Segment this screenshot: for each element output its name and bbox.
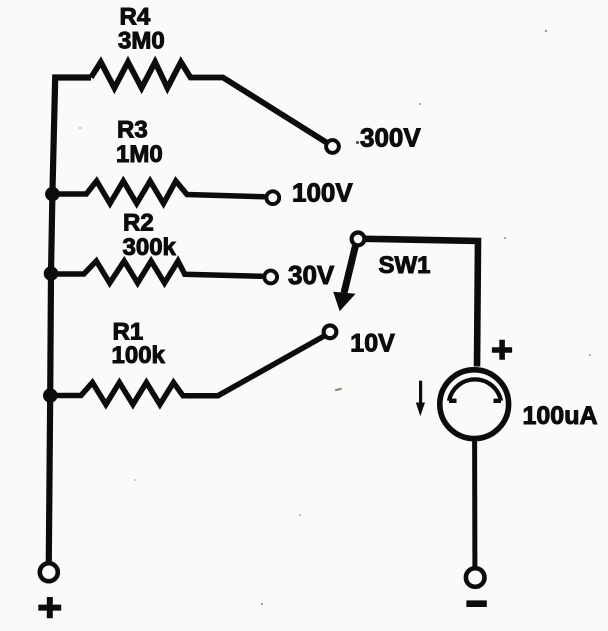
- svg-text:100uA: 100uA: [523, 402, 598, 430]
- svg-text:R2: R2: [123, 209, 154, 236]
- svg-text:100k: 100k: [112, 342, 166, 369]
- svg-text:R3: R3: [117, 116, 148, 143]
- svg-text:3M0: 3M0: [118, 27, 165, 54]
- svg-text:10V: 10V: [350, 329, 395, 357]
- svg-text:1M0: 1M0: [116, 141, 163, 168]
- svg-text:300k: 300k: [123, 234, 177, 261]
- svg-text:SW1: SW1: [379, 252, 431, 279]
- svg-text:100V: 100V: [292, 177, 353, 207]
- svg-text:300V: 300V: [360, 123, 421, 153]
- svg-text:30V: 30V: [288, 260, 335, 290]
